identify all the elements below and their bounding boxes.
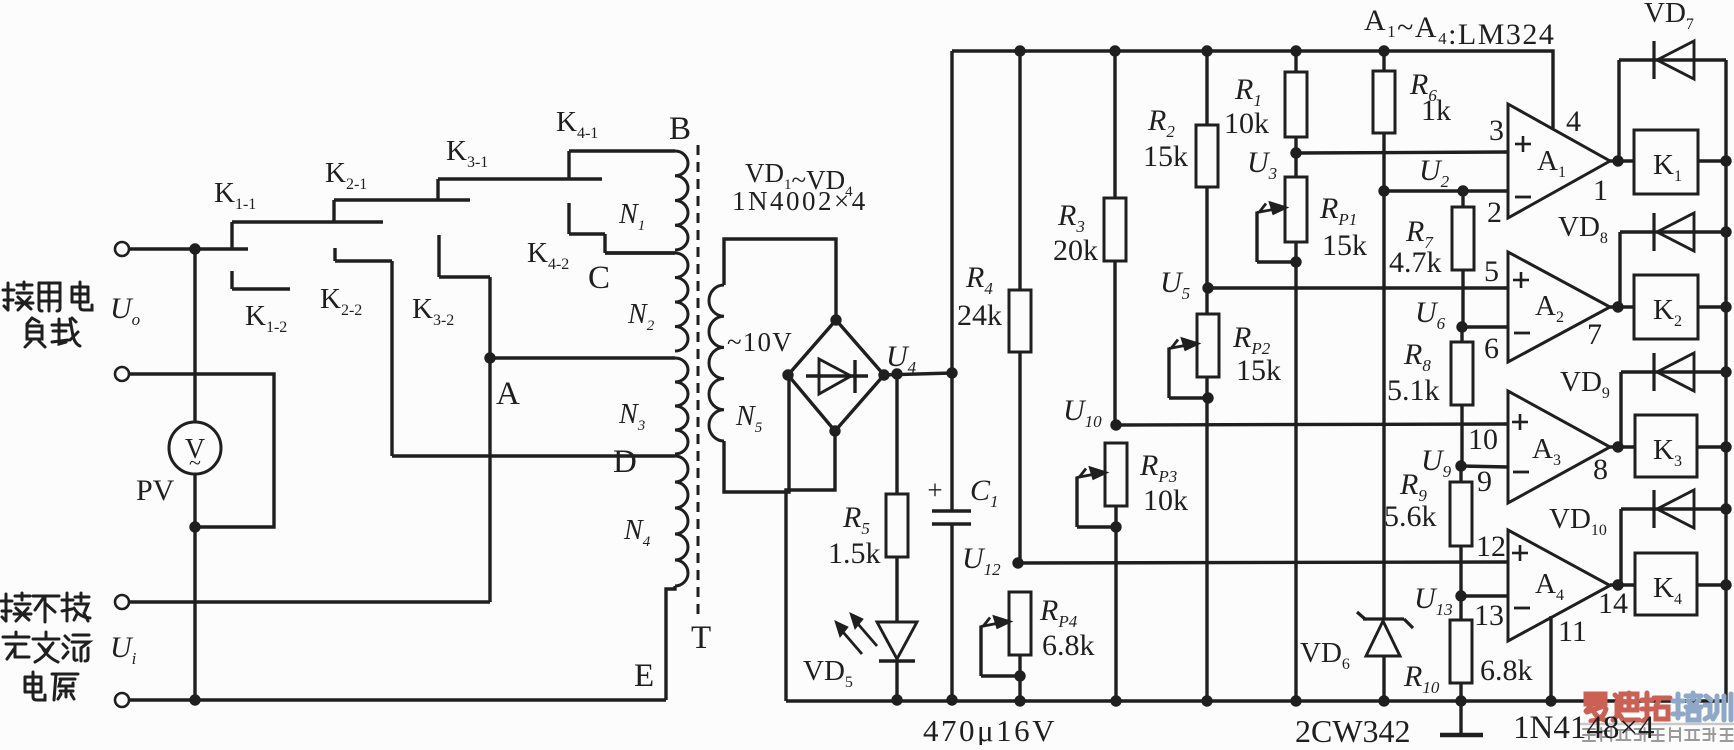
label node A [496, 376, 520, 412]
svg-text:15k: 15k [1236, 354, 1281, 387]
junction dot A3 output [1612, 441, 1623, 452]
label U3 [1247, 146, 1277, 183]
svg-text:24k: 24k [957, 299, 1002, 332]
wire: U4 node line from bridge output [884, 373, 952, 375]
wire: U13 line to pin 13 [1461, 594, 1508, 597]
bridge corner dot bottom [829, 425, 840, 436]
label 1k [1421, 94, 1451, 127]
svg-text:8: 8 [1593, 453, 1608, 486]
ground symbol [1440, 701, 1483, 735]
transformer T primary winding N4 [675, 456, 688, 586]
junction dot VD8 right [1720, 226, 1731, 237]
label pin 6 [1484, 332, 1499, 365]
wire: R3 rail [1113, 51, 1116, 425]
wire: K2 to right rail [1698, 305, 1726, 308]
transformer T primary winding N1 [675, 151, 688, 250]
label pin 14 [1598, 587, 1628, 620]
junction dot VD9 right [1720, 366, 1731, 377]
label U2 [1419, 154, 1450, 191]
resistor R4 [1009, 290, 1031, 352]
potentiometer RP2 [1169, 314, 1219, 398]
bridge corner dot right [878, 369, 889, 380]
svg-text:T: T [691, 620, 711, 656]
svg-text:20k: 20k [1053, 234, 1098, 267]
resistor R2 [1196, 125, 1218, 187]
wire: AC input top to node A vertical [129, 600, 490, 603]
resistor R5 [886, 494, 908, 557]
svg-text:12: 12 [1476, 530, 1506, 563]
relay K4 [1635, 553, 1697, 615]
junction dot VD10 right [1720, 503, 1731, 514]
junction dot R3 ground [1110, 695, 1121, 706]
junction dot R1 ground [1290, 695, 1301, 706]
label 5.6k [1384, 500, 1437, 533]
svg-text:A: A [496, 376, 520, 412]
label pin 8 [1593, 453, 1608, 486]
label tap D [613, 444, 637, 480]
junction dot R10 ground [1455, 695, 1466, 706]
wire: R1 rail [1294, 51, 1297, 177]
label pin 5 [1484, 255, 1499, 288]
label VD5 [803, 655, 853, 691]
wire: positive supply bus [952, 51, 1553, 128]
svg-text:~: ~ [189, 450, 201, 475]
svg-text:15k: 15k [1322, 229, 1367, 262]
wire: primary bottom lead to E [666, 586, 675, 700]
diode VD10 [1621, 490, 1726, 585]
wire: R8 rail [1460, 327, 1463, 466]
label 10k of RP3 [1143, 484, 1188, 517]
label R3 [1057, 199, 1085, 236]
label RP4 [1039, 594, 1078, 631]
wire: K3 to right rail [1697, 445, 1726, 448]
label + of C1 [927, 475, 942, 505]
junction dot R6 top [1378, 45, 1389, 56]
label Chinese: ding jiao liu line2 [3, 632, 89, 662]
resistor R8 [1451, 342, 1473, 405]
label 10k of R1 [1224, 107, 1269, 140]
relay contact K1-2 (open) [232, 271, 290, 289]
svg-text:+: + [927, 475, 942, 505]
svg-text:B: B [669, 111, 691, 147]
label 6.8k of R10 [1480, 654, 1533, 687]
label R6 [1409, 68, 1437, 105]
label R10 [1403, 660, 1440, 697]
wire: A3 output to relay K3 [1610, 445, 1634, 448]
svg-text:1N4148×4: 1N4148×4 [1513, 710, 1654, 745]
svg-text:1N4002×4: 1N4002×4 [732, 186, 868, 216]
label VD8 [1558, 211, 1608, 247]
wire: N5 top lead to bridge top [724, 239, 836, 320]
op-amp A3 [1508, 391, 1610, 503]
label 6.8k of RP4 [1042, 629, 1095, 662]
svg-text:1k: 1k [1421, 94, 1451, 127]
svg-text:PV: PV [136, 474, 175, 507]
relay K2 [1634, 275, 1698, 339]
voltmeter PV [169, 422, 221, 475]
label U12 [962, 542, 1001, 579]
transformer T primary winding N2 [675, 253, 688, 351]
junction dot U4 at R5 tap [891, 368, 902, 379]
label R4 [965, 261, 993, 298]
label K3-1 [446, 135, 488, 171]
label K4-1 [556, 106, 598, 142]
transformer secondary winding N5 [709, 285, 724, 441]
label R7 [1405, 215, 1434, 252]
relay contact K2-2 [335, 248, 392, 261]
watermark underline [1580, 723, 1734, 726]
label pin 1 [1593, 174, 1608, 207]
wire: RP1 rail below [1294, 242, 1297, 701]
wire: DC ground bus [786, 60, 1726, 701]
junction dot U10 [1110, 419, 1121, 430]
potentiometer RP1 [1257, 177, 1307, 262]
label U13 [1414, 582, 1453, 619]
label pin 9 [1477, 465, 1492, 498]
label N1 [618, 199, 645, 234]
label U_o [110, 292, 140, 329]
junction dot U13 [1455, 590, 1466, 601]
svg-text:6.8k: 6.8k [1042, 629, 1095, 662]
junction dot at PV bottom [189, 521, 200, 532]
label T [691, 620, 711, 656]
junction dot RP1 wiper [1290, 256, 1301, 267]
wire: R10 rail [1459, 596, 1462, 701]
relay contact K3-2 [439, 235, 490, 277]
wire: lower load terminal loop to PV bottom [129, 374, 274, 527]
wire: K1 to right rail [1698, 159, 1726, 162]
junction dot U4 at C1 rail [946, 367, 957, 378]
label RP1 [1319, 192, 1357, 229]
label R8 [1403, 338, 1431, 375]
svg-text:D: D [613, 444, 637, 480]
resistor R6 [1373, 71, 1395, 133]
label pin 10 [1468, 423, 1498, 456]
terminal: AC input terminal bottom [115, 693, 129, 707]
wire: N5 bottom lead to bridge left [724, 377, 789, 492]
wire: RP2 to ground bus [1205, 377, 1208, 701]
label 1N4148x4 [1513, 710, 1654, 746]
label 15k of RP2 [1236, 354, 1281, 387]
wire: R7 rail [1461, 191, 1464, 327]
wire: node A to transformer tap A [490, 356, 675, 359]
junction dot U12 [1012, 557, 1023, 568]
diode VD8 [1620, 213, 1726, 307]
label ~10V [727, 327, 793, 357]
svg-text:10: 10 [1468, 423, 1498, 456]
resistor R7 [1452, 207, 1474, 270]
label R5 [842, 501, 870, 538]
label Chinese: fu zai (load) line2 [25, 318, 80, 347]
svg-text:E: E [634, 658, 654, 694]
label VD1~VD4 [745, 158, 853, 200]
svg-text:10k: 10k [1143, 484, 1188, 517]
resistor R10 [1450, 620, 1472, 683]
watermark slogan gray text [1583, 728, 1733, 741]
terminal: AC input terminal top [115, 595, 129, 609]
relay contact K4-2 [569, 203, 675, 253]
junction dot U2 [1378, 185, 1389, 196]
terminal: load output terminal bottom (U_o -) [115, 367, 129, 381]
wire: R6 rail [1382, 51, 1385, 618]
diode VD7 [1619, 41, 1726, 161]
junction dot R2 top [1201, 45, 1212, 56]
wire: bottom AC bus to transformer E lead [129, 698, 666, 701]
label N5 [735, 401, 763, 436]
wire: RP4 to ground bus [1018, 655, 1021, 701]
svg-text:7: 7 [1587, 318, 1602, 351]
label K2-2 [320, 283, 362, 319]
junction dot R3 top [1109, 45, 1120, 56]
label pin 2 [1487, 196, 1502, 229]
svg-text:10k: 10k [1224, 107, 1269, 140]
junction dot VD5 ground [891, 694, 902, 705]
svg-text:C: C [588, 260, 610, 296]
svg-text:4: 4 [1566, 105, 1581, 138]
label N2 [627, 299, 655, 334]
label PV [136, 474, 175, 507]
relay K3 [1635, 415, 1697, 477]
label 15k of RP1 [1322, 229, 1367, 262]
label 1.5k [828, 537, 881, 570]
transformer core [697, 145, 700, 620]
label U_i [110, 631, 137, 668]
relay contact K1-1 [232, 222, 383, 249]
bridge corner dot top [830, 314, 841, 325]
label tap B [669, 111, 691, 147]
svg-text:15k: 15k [1143, 140, 1188, 173]
junction dot RP3 wiper [1110, 521, 1121, 532]
label 5.1k [1387, 374, 1440, 407]
wire: R2 rail [1205, 51, 1208, 288]
label R9 [1399, 468, 1427, 505]
wire: U3 line to pin 3 [1296, 152, 1508, 153]
wire: K3-2 down to node A [488, 277, 491, 358]
junction dot A4 output [1612, 579, 1623, 590]
svg-text:1: 1 [1593, 174, 1608, 207]
label pin 7 [1587, 318, 1602, 351]
label U10 [1063, 394, 1102, 431]
wire: U5 line to pin 5 [1208, 286, 1507, 289]
svg-text:470μ16V: 470μ16V [923, 713, 1057, 745]
label tap C [588, 260, 610, 296]
label 470u16V [923, 713, 1057, 748]
bridge rectifier VD1-VD4 diamond [788, 320, 884, 431]
wire: A1 output to relay K1 [1610, 159, 1634, 162]
svg-text:14: 14 [1598, 587, 1628, 620]
junction dot K3 right [1720, 441, 1731, 452]
diode VD9 [1621, 353, 1726, 447]
label VD9 [1560, 366, 1610, 402]
wire: K2-2 to transformer tap D [392, 261, 675, 456]
junction dot RP4 wiper [1014, 670, 1025, 681]
junction dot VD6 ground [1378, 695, 1389, 706]
junction dot R1 top [1290, 45, 1301, 56]
wire: U2 line to pin 2 [1384, 189, 1508, 192]
junction dot K1 right [1720, 155, 1731, 166]
junction dot on AC bus [189, 694, 200, 705]
label 4.7k [1389, 246, 1442, 279]
label pin 3 [1489, 114, 1504, 147]
junction dot U3 [1290, 147, 1301, 158]
wire: R2 rail to RP2 [1205, 288, 1208, 314]
label U6 [1415, 296, 1446, 333]
label R1 [1234, 73, 1262, 110]
junction dot A1 output [1612, 155, 1623, 166]
label K1-2 [245, 300, 287, 336]
label U4 [886, 340, 917, 377]
svg-text:5: 5 [1484, 255, 1499, 288]
junction node at U_o top [189, 243, 200, 254]
wire: A4 pin 11 to ground bus [1549, 616, 1552, 701]
junction dot RP4 ground [1014, 695, 1025, 706]
bridge inner diode [806, 359, 868, 394]
resistor R3 [1104, 198, 1126, 261]
label Chinese: jie bu wen line1 [1, 593, 90, 622]
junction dot K2 right [1720, 301, 1731, 312]
svg-text:~10V: ~10V [727, 327, 793, 357]
svg-text:9: 9 [1477, 465, 1492, 498]
junction dot A2 output [1612, 301, 1623, 312]
wire: RP3 to ground bus [1114, 506, 1117, 701]
resistor R1 [1285, 72, 1307, 137]
label pin 12 [1476, 530, 1506, 563]
potentiometer RP3 [1077, 443, 1127, 527]
label C1 [970, 474, 999, 511]
label N4 [623, 515, 651, 550]
relay K1 [1634, 130, 1698, 194]
junction dot U6 [1456, 321, 1467, 332]
capacitor C1 [932, 511, 971, 700]
potentiometer RP4 [981, 592, 1031, 676]
label Chinese: jie yong dian (connect load) line1 [3, 282, 92, 311]
junction dot K4 right [1720, 579, 1731, 590]
resistor R9 [1450, 482, 1472, 546]
label 24k [957, 299, 1002, 332]
watermark text yidetuo [1586, 693, 1670, 721]
relay contact K2-1 [334, 200, 470, 222]
label pin 11 [1558, 615, 1587, 648]
svg-text:11: 11 [1558, 615, 1587, 648]
label R2 [1147, 104, 1175, 141]
bridge corner dot left [782, 369, 793, 380]
svg-text:1.5k: 1.5k [828, 537, 881, 570]
wire: C1 positive rail [950, 51, 953, 511]
wire: R9 rail [1459, 466, 1462, 596]
junction dot R2 ground [1201, 695, 1212, 706]
wire: junction to K1-1 contact terminal [195, 247, 248, 250]
label K1-1 [214, 177, 256, 213]
op-amp A4 [1508, 530, 1610, 641]
label Chinese: dian yuan line3 [25, 672, 78, 700]
op-amp A1 [1508, 104, 1610, 218]
label K3-2 [412, 293, 454, 329]
label 1N4002x4 [732, 186, 868, 216]
label VD10 [1549, 503, 1607, 539]
terminal: load output terminal top (U_o +) [115, 242, 129, 256]
wire: U12 line to pin 12 [1018, 562, 1507, 563]
label U5 [1160, 266, 1190, 303]
wire: U6 line to pin 6 [1462, 325, 1508, 328]
transformer tap C wire [605, 251, 675, 254]
wire: terminal to main junction [129, 247, 192, 250]
svg-text:5.1k: 5.1k [1387, 374, 1440, 407]
relay contact K3-1 [438, 179, 602, 200]
label 20k [1053, 234, 1098, 267]
junction dot R4 top [1014, 45, 1025, 56]
svg-text:13: 13 [1474, 599, 1504, 632]
wire: main vertical rail through voltmeter [193, 249, 196, 700]
wire: bridge negative to ground bus [786, 431, 835, 701]
wire: R5 rail upper [895, 374, 898, 494]
wire: U10 line to pin 10 [1116, 424, 1507, 425]
junction dot R7 top on U2 line [1457, 185, 1468, 196]
op-amp A2 [1508, 252, 1610, 362]
svg-text:6.8k: 6.8k [1480, 654, 1533, 687]
LED VD5 [877, 622, 917, 700]
junction dot C1 ground [946, 694, 957, 705]
label A1~A4 LM324 [1364, 4, 1555, 51]
junction dot U5 [1202, 282, 1213, 293]
transformer T primary winding N3 [675, 358, 688, 454]
label 2CW342 [1295, 713, 1411, 749]
wire: node A vertical to AC input [488, 358, 491, 602]
label 15k of R2 [1143, 140, 1188, 173]
label K4-2 [527, 237, 569, 273]
label U9 [1421, 444, 1452, 481]
junction dot RP2 wiper [1202, 392, 1213, 403]
label N3 [618, 399, 645, 434]
wire: K4 to right rail [1697, 583, 1726, 586]
zener diode VD6 [1357, 612, 1413, 701]
wire: A4 output to relay K4 [1610, 583, 1634, 586]
wire: R4 rail [1018, 51, 1021, 563]
LED VD5 arrows [835, 613, 877, 654]
watermark text peixun [1673, 693, 1731, 720]
svg-text:4.7k: 4.7k [1389, 246, 1442, 279]
svg-text:5.6k: 5.6k [1384, 500, 1437, 533]
junction dot pin 11 ground [1545, 695, 1556, 706]
svg-text:2CW342: 2CW342 [1295, 713, 1411, 745]
wire: R5 to VD5 [895, 557, 898, 622]
svg-text:3: 3 [1489, 114, 1504, 147]
label pin 13 [1474, 599, 1504, 632]
label RP2 [1232, 321, 1271, 358]
wire: U9 line to pin 9 [1461, 466, 1508, 467]
label K2-1 [325, 157, 367, 193]
label RP3 [1139, 449, 1177, 486]
svg-text:6: 6 [1484, 332, 1499, 365]
relay contact K4-1 [569, 151, 675, 179]
svg-text:2: 2 [1487, 196, 1502, 229]
node A junction [484, 352, 495, 363]
label pin 4 [1566, 105, 1581, 138]
wire: A2 output to relay K2 [1610, 305, 1634, 308]
label VD6 [1300, 637, 1350, 673]
junction dot U9 [1455, 460, 1466, 471]
label tap E [634, 658, 654, 694]
label VD7 [1644, 0, 1694, 33]
